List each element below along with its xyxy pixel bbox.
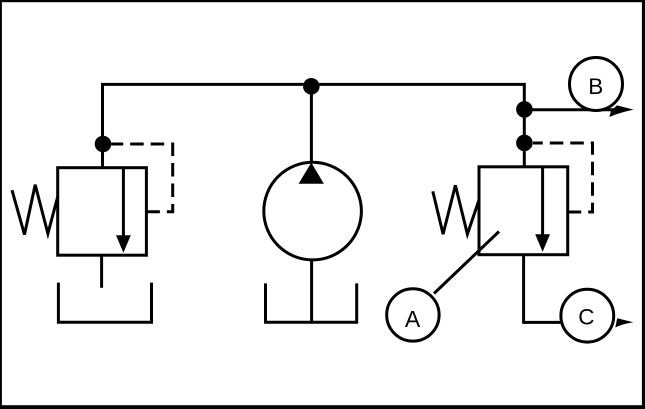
node: junction port B tap <box>516 101 533 118</box>
wire: V2 outlet to port C <box>524 255 562 323</box>
port A circle <box>387 289 439 341</box>
wire: pump suction line <box>310 260 313 322</box>
wire: port B branch <box>524 108 618 111</box>
wire: top pressure bus <box>103 84 525 167</box>
leader line from A to V2 <box>434 232 499 294</box>
svg-text:A: A <box>405 306 421 332</box>
valve V1 flow arrow <box>122 168 125 238</box>
tank T2 (pump) <box>266 283 357 322</box>
svg-text:C: C <box>578 304 594 329</box>
wire: pump outlet riser <box>310 84 313 162</box>
valve V2 body (right relief valve) <box>479 167 568 255</box>
valve V2 flow arrow <box>541 167 544 237</box>
pump P1 <box>264 162 362 260</box>
valve V1 spring <box>12 185 58 235</box>
valve V1 pilot line (dashed) <box>111 144 173 212</box>
node: junction right pilot tap <box>516 135 533 152</box>
arrow at port C <box>615 318 633 327</box>
valve V2 spring <box>433 185 479 234</box>
port B circle <box>570 58 623 111</box>
svg-text:B: B <box>588 74 603 99</box>
valve V2 pilot line (dashed) <box>533 143 593 212</box>
port C circle <box>561 289 614 342</box>
tank T1 (left) <box>58 283 151 323</box>
wire: V1 drain to tank <box>100 255 103 288</box>
node: junction pump-to-bus <box>303 78 320 95</box>
arrow at port B <box>609 105 633 117</box>
valve V1 body (left relief valve) <box>58 168 147 256</box>
node: junction left pilot tap <box>95 136 112 153</box>
